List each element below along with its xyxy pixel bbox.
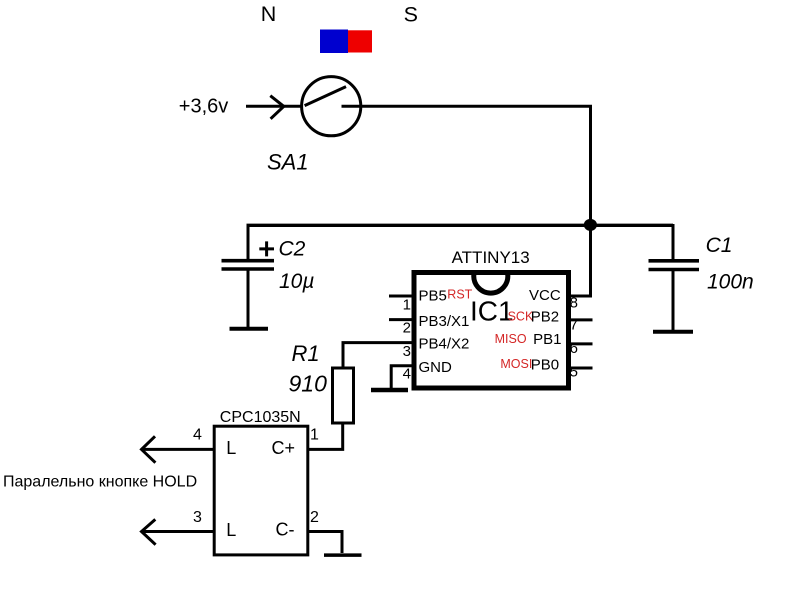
ground bar under C1	[653, 330, 693, 334]
svg-text:1: 1	[310, 426, 319, 443]
capacitor C2 polarity plus sign	[259, 241, 274, 256]
wire IC1 pin 5	[569, 367, 593, 370]
wire horizontal supply rail C2 to C1	[247, 224, 674, 227]
svg-text:L: L	[226, 438, 236, 458]
svg-text:ATTINY13: ATTINY13	[452, 248, 530, 267]
svg-text:S: S	[404, 2, 418, 26]
svg-text:3: 3	[403, 343, 411, 360]
svg-text:100n: 100n	[707, 270, 754, 293]
wire from +3,6v into switch SA1	[246, 105, 302, 108]
junction dot at VCC node	[584, 219, 597, 231]
svg-text:3: 3	[193, 509, 202, 526]
svg-text:4: 4	[193, 426, 202, 443]
svg-text:N: N	[261, 2, 277, 26]
capacitor C1 plates	[649, 261, 700, 270]
svg-text:910: 910	[289, 370, 328, 396]
wire U1 pin 4 output	[142, 448, 214, 451]
wire IC1 pin 6	[569, 342, 593, 345]
svg-text:SA1: SA1	[267, 149, 309, 174]
svg-text:2: 2	[310, 509, 319, 526]
svg-text:L: L	[226, 520, 236, 540]
svg-text:PB4/X2: PB4/X2	[419, 335, 470, 352]
capacitor C1 bottom lead wire	[672, 270, 675, 331]
svg-text:C1: C1	[706, 234, 733, 257]
svg-text:CPC1035N: CPC1035N	[220, 409, 301, 426]
ground bar under C2	[230, 327, 269, 331]
capacitor C2 bottom lead wire	[247, 269, 250, 327]
magnet (blue half)	[320, 30, 348, 54]
svg-text:8: 8	[570, 294, 578, 311]
capacitor C2 plates	[222, 261, 275, 269]
arrow head on +3,6v wire	[270, 96, 284, 119]
ground bar at IC1 pin 4	[371, 388, 408, 393]
wire U1 pin 3 output	[142, 530, 214, 533]
svg-text:1: 1	[403, 297, 411, 314]
svg-text:C+: C+	[272, 438, 296, 458]
magnet (red half)	[348, 30, 372, 52]
capacitor C1 top lead wire	[672, 224, 675, 259]
svg-text:GND: GND	[419, 359, 453, 376]
svg-text:+3,6v: +3,6v	[179, 96, 228, 118]
switch SA1 lever contact	[305, 87, 346, 106]
svg-text:C2: C2	[279, 238, 306, 261]
svg-text:R1: R1	[292, 341, 320, 366]
svg-text:7: 7	[570, 317, 578, 334]
svg-text:VCC: VCC	[529, 287, 561, 304]
svg-text:C-: C-	[276, 520, 295, 540]
arrow head on U1 pin 3 wire	[142, 519, 156, 544]
svg-text:6: 6	[570, 340, 578, 357]
reed switch SA1 circle	[302, 77, 361, 136]
capacitor C2 top lead wire	[247, 224, 250, 259]
wire IC1 pin 7	[569, 318, 593, 321]
wire IC1 pin 1	[389, 295, 414, 298]
wire IC1 pin 8 to VCC node	[569, 295, 593, 298]
svg-text:PB3/X1: PB3/X1	[419, 313, 470, 330]
wire IC1 pin 3 to resistor R1 top	[343, 343, 414, 367]
wire resistor R1 bottom to optocoupler U1 pin 1	[309, 425, 343, 450]
svg-text:PB1: PB1	[533, 331, 561, 348]
svg-text:PB5: PB5	[419, 287, 447, 304]
wire from switch SA1 output to VCC node	[342, 105, 593, 108]
wire U1 pin 2 to ground	[309, 532, 342, 554]
svg-text:MOSI: MOSI	[500, 357, 532, 371]
svg-text:10µ: 10µ	[279, 270, 314, 293]
ground bar at U1 pin 2	[324, 553, 362, 557]
svg-text:4: 4	[403, 366, 411, 383]
IC1 pin-1 notch	[474, 274, 508, 294]
svg-text:RST: RST	[447, 287, 472, 301]
svg-text:PB0: PB0	[531, 357, 559, 374]
svg-text:Паралельно кнопке HOLD: Паралельно кнопке HOLD	[3, 474, 197, 491]
svg-text:PB2: PB2	[531, 309, 559, 326]
wire IC1 pin 2	[389, 318, 414, 321]
IC1 body	[414, 273, 569, 389]
arrow head on U1 pin 4 wire	[142, 436, 156, 462]
resistor R1 body	[333, 368, 354, 423]
svg-text:2: 2	[403, 320, 411, 337]
wire IC1 pin 4 to ground	[391, 366, 414, 389]
wire vertical from switch down to IC1 pin 8	[589, 105, 592, 297]
optocoupler U1 body	[214, 426, 308, 555]
svg-text:MISO: MISO	[495, 332, 527, 346]
svg-text:5: 5	[570, 364, 578, 381]
